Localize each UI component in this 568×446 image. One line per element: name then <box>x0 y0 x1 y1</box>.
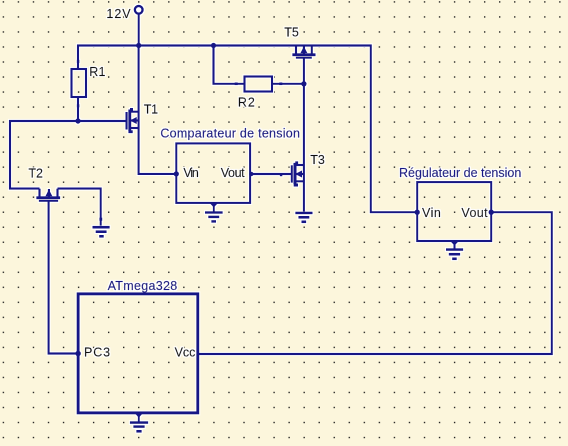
wire T1 column to comparator Vin <box>139 46 177 174</box>
wire T2 right to ground <box>58 189 101 226</box>
wire R2 branch <box>214 46 245 84</box>
wire R1 bottom <box>77 97 79 121</box>
node comparator Vin pin <box>174 171 179 176</box>
svg-text:Vin: Vin <box>183 166 198 180</box>
microcontroller box ATmega328 <box>78 294 198 413</box>
svg-text:T5: T5 <box>284 25 299 39</box>
svg-text:Comparateur de tension: Comparateur de tension <box>160 127 300 141</box>
transistor T2 <box>36 189 60 201</box>
node junction at 12V drop <box>136 43 141 48</box>
regulator box <box>417 182 491 241</box>
wire T5 gate to R2 node <box>303 57 305 84</box>
svg-text:T1: T1 <box>144 102 158 116</box>
resistor R2 <box>235 77 283 92</box>
svg-text:T2: T2 <box>28 167 43 181</box>
transistor T5 <box>292 46 315 58</box>
svg-text:ATmega328: ATmega328 <box>108 279 178 293</box>
wire R2 right to T3 column <box>272 83 304 85</box>
ground T3 source <box>295 213 312 222</box>
transistor T3 <box>292 161 304 186</box>
node PC3 pin <box>75 351 81 357</box>
svg-text:Vout: Vout <box>461 206 488 220</box>
svg-text:R1: R1 <box>89 65 105 79</box>
wire regulator Vout to Vcc <box>198 212 552 354</box>
wire T2 gate to PC3 <box>49 201 79 354</box>
svg-text:Vcc: Vcc <box>175 346 196 360</box>
wire main top rail <box>78 46 417 213</box>
transistor T1 <box>127 108 139 133</box>
wire T1 gate rail to T2 <box>10 121 127 189</box>
resistor R1 <box>72 60 87 108</box>
ground comparator <box>205 203 223 222</box>
node junction T5 gate / R2 / T3 <box>301 81 306 86</box>
node junction R1 bottom <box>75 118 80 123</box>
svg-text:R2: R2 <box>238 95 256 109</box>
svg-text:PC3: PC3 <box>84 346 111 360</box>
svg-text:Vin: Vin <box>422 206 441 220</box>
wire comparator Vout to T3 gate <box>250 173 292 175</box>
node junction at R2 branch <box>211 43 216 48</box>
power terminal 12V <box>135 6 143 46</box>
pin tick regulator Vin <box>415 210 420 215</box>
svg-text:12V: 12V <box>106 7 131 21</box>
svg-text:Vout: Vout <box>221 166 245 180</box>
comparator box <box>176 143 250 203</box>
ground ATmega <box>130 413 148 431</box>
svg-text:Régulateur de tension: Régulateur de tension <box>399 166 521 180</box>
ground T2 drain <box>93 227 110 236</box>
ground regulator <box>446 241 463 259</box>
wire T3 column to ground <box>303 84 305 212</box>
svg-text:T3: T3 <box>310 153 325 167</box>
